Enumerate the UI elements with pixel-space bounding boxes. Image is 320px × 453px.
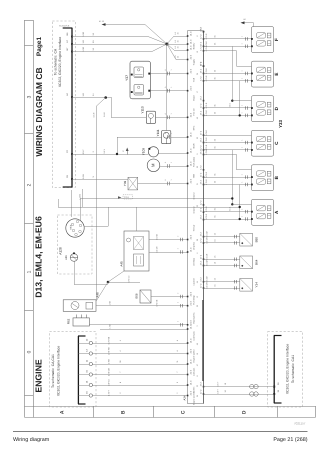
svg-text:1: 1	[240, 174, 243, 175]
wires to B50	[204, 231, 240, 245]
rail pin left	[187, 183, 189, 185]
svg-text:Boost: Boost	[193, 95, 196, 101]
wire Y37 upper coil to rail	[150, 73, 187, 75]
svg-text:8: 8	[176, 382, 179, 383]
injector link wire E-D	[239, 81, 241, 117]
svg-text:2: 2	[176, 393, 179, 394]
svg-text:C: C	[180, 410, 186, 414]
pump motor M (A128)	[147, 159, 160, 172]
svg-text:35: 35	[214, 43, 217, 45]
rail pin right	[203, 107, 205, 109]
svg-text:0.75-SB: 0.75-SB	[108, 336, 111, 344]
svg-text:16: 16	[214, 256, 217, 258]
svg-text:1-GN: 1-GN	[82, 174, 85, 179]
ground drop wire from interface	[82, 189, 84, 207]
svg-text:E: E	[274, 73, 279, 76]
pin 14 on lower connector	[86, 379, 122, 387]
svg-text:Ground: Ground	[193, 192, 196, 200]
svg-text:30: 30	[177, 32, 180, 34]
svg-text:ENGINE: ENGINE	[33, 359, 43, 393]
svg-text:Page 21 (268): Page 21 (268)	[273, 437, 307, 443]
svg-text:2: 2	[26, 183, 32, 186]
svg-text:0.75-R: 0.75-R	[205, 171, 208, 177]
svg-text:35: 35	[214, 216, 217, 218]
wire lower pin 15 to rail	[93, 395, 188, 397]
svg-text:Y37: Y37	[125, 75, 129, 81]
injector unit Y33-C	[251, 130, 274, 156]
wire to Y110	[111, 117, 146, 119]
svg-text:35: 35	[214, 77, 217, 79]
inline connector	[164, 132, 173, 139]
svg-text:Oil temp: Oil temp	[193, 257, 196, 266]
svg-text:7021157: 7021157	[294, 422, 306, 426]
svg-text:0.75-R: 0.75-R	[205, 137, 208, 143]
svg-text:1-SB: 1-SB	[82, 46, 85, 51]
rail pin left	[187, 353, 189, 355]
svg-text:B50: B50	[254, 237, 258, 243]
solenoid valve unit Y37	[125, 61, 151, 99]
twisted pair symbol	[250, 384, 259, 396]
svg-text:A48: A48	[96, 292, 100, 298]
sensor icon near Y109	[122, 148, 129, 155]
vertical wire from CB elbow down to A128	[71, 190, 73, 217]
wire Y37 lower coil to rail	[150, 90, 187, 92]
inline connector	[164, 69, 173, 76]
svg-text:1: 1	[240, 140, 243, 141]
rail pin right	[203, 265, 205, 267]
pin 34 bottom-right connector	[273, 389, 280, 395]
wire Y109 to rail	[159, 153, 188, 155]
wire MDA right to bus	[84, 226, 108, 228]
svg-text:0.75-R: 0.75-R	[205, 110, 208, 116]
supply arrow terminal for injectors	[241, 18, 254, 27]
svg-text:WIRING DIAGRAM CB: WIRING DIAGRAM CB	[34, 67, 44, 156]
svg-text:0.75-R: 0.75-R	[205, 102, 208, 108]
page titles (rotated)	[33, 37, 43, 393]
injector top feed wires	[204, 67, 252, 205]
svg-text:Y33: Y33	[278, 120, 283, 128]
svg-text:30: 30	[177, 40, 180, 42]
wires to injector B	[204, 171, 252, 186]
svg-text:A85: A85	[65, 255, 68, 260]
inline connector before rail	[176, 248, 182, 253]
svg-text:1: 1	[170, 179, 173, 180]
svg-text:Wiring diagram: Wiring diagram	[13, 437, 50, 443]
inline connector before rail	[176, 321, 182, 326]
rail pin right	[203, 65, 205, 67]
rail pin left	[187, 342, 189, 344]
svg-text:0.5-R: 0.5-R	[103, 112, 106, 117]
wire from CB pin B6 to node	[72, 36, 148, 38]
sensor B50	[240, 233, 258, 246]
engine ECU connector rail A34	[183, 31, 204, 404]
svg-text:Y109: Y109	[141, 148, 145, 156]
svg-text:Engine speed: Engine speed	[193, 349, 196, 363]
wires to injector D	[204, 102, 252, 117]
rail pin left	[187, 136, 189, 138]
svg-text:Page1: Page1	[36, 37, 43, 57]
rail pin left	[187, 251, 189, 253]
wire B58 to rail	[151, 296, 188, 298]
svg-text:Y34: Y34	[254, 282, 258, 288]
svg-text:0.75-R: 0.75-R	[205, 75, 208, 81]
pin A7 on connector CB	[66, 39, 95, 45]
svg-text:1: 1	[170, 113, 173, 114]
inline connector	[164, 112, 173, 119]
svg-text:16: 16	[214, 233, 217, 235]
svg-text:1: 1	[170, 87, 173, 88]
wire lower pin 14 to rail	[93, 385, 188, 387]
relay A48	[63, 292, 99, 311]
rail pin right	[203, 115, 205, 117]
rail pin left	[187, 73, 189, 75]
injector unit Y33-E	[251, 61, 274, 87]
svg-text:Fuel pump: Fuel pump	[193, 156, 196, 167]
svg-text:2: 2	[176, 248, 179, 249]
svg-text:Boost press: Boost press	[193, 313, 196, 324]
svg-text:1: 1	[240, 209, 243, 210]
rail pin right	[203, 219, 205, 221]
rail pin right	[203, 31, 205, 33]
svg-text:Sensor: Sensor	[193, 224, 196, 231]
svg-text:1: 1	[240, 182, 243, 183]
wire Y110 to rail	[156, 117, 188, 119]
wire lower pin 13 to rail	[93, 353, 188, 355]
control unit A128 (dashed)	[58, 215, 93, 274]
svg-text:Engine position: Engine position	[193, 391, 196, 405]
rail pin right	[203, 31, 205, 33]
svg-text:1-R: 1-R	[82, 40, 85, 44]
rail pin right	[203, 80, 205, 82]
rail pin left	[187, 152, 189, 154]
sensor B64	[240, 256, 258, 269]
svg-text:35: 35	[214, 70, 217, 72]
ground bus wire lower	[58, 207, 240, 209]
svg-text:Y110: Y110	[140, 106, 144, 113]
rail pin right	[203, 176, 205, 178]
wire A85 down to junction	[74, 261, 76, 284]
svg-text:A34: A34	[183, 395, 187, 400]
rail pin right	[203, 154, 205, 156]
svg-text:0.5-GR: 0.5-GR	[206, 253, 209, 260]
svg-text:1-SB: 1-SB	[109, 324, 112, 329]
solenoid valve Y111	[156, 129, 171, 143]
wires to injector C	[204, 137, 252, 152]
svg-text:B58: B58	[135, 293, 139, 298]
svg-text:35: 35	[214, 174, 217, 176]
svg-text:0.5-GR: 0.5-GR	[206, 276, 209, 283]
wire R62 to rail	[89, 324, 187, 326]
rail pin left	[187, 49, 189, 51]
svg-text:M: M	[151, 163, 156, 167]
svg-text:0.75-R: 0.75-R	[205, 33, 208, 39]
svg-text:0.75-R: 0.75-R	[205, 68, 208, 74]
wire lower pin 31 to rail	[93, 374, 188, 376]
sensor Y34	[240, 279, 258, 292]
svg-text:35: 35	[214, 208, 217, 210]
svg-text:A128: A128	[58, 247, 62, 255]
frame coordinate band (bottom)	[25, 406, 316, 418]
svg-text:1: 1	[240, 36, 243, 37]
wire branch to Y111	[117, 137, 119, 154]
rail pin left	[187, 43, 189, 45]
svg-text:0.75-R: 0.75-R	[205, 45, 208, 51]
pin 13 on lower connector	[86, 347, 122, 355]
svg-text:16: 16	[214, 262, 217, 264]
wire lower pin 11 to rail	[93, 364, 188, 366]
wire lower pin 12 to rail	[93, 343, 188, 345]
rail pin right	[203, 242, 205, 244]
svg-text:3: 3	[26, 95, 32, 98]
svg-text:1-SB: 1-SB	[82, 31, 85, 36]
rail pin right	[203, 50, 205, 52]
pin B6 on connector CB	[66, 31, 95, 37]
svg-text:0.75-R: 0.75-R	[205, 179, 208, 185]
wire from CB pin A2	[72, 96, 112, 300]
rail pin right	[203, 73, 205, 75]
svg-text:1-SB: 1-SB	[109, 300, 112, 305]
interface box XC302 lower (dashed)	[50, 332, 97, 408]
rail pin right	[203, 287, 205, 289]
svg-text:0.75-Y: 0.75-Y	[108, 389, 111, 396]
pin 12 on lower connector	[86, 336, 122, 344]
svg-text:16: 16	[214, 285, 217, 287]
wires to injector F	[204, 33, 252, 48]
svg-text:1: 1	[170, 133, 173, 134]
svg-text:Battery: Battery	[193, 42, 196, 50]
injector link wire C-A	[228, 150, 233, 211]
resistor R62	[66, 315, 89, 327]
svg-text:61 30: 61 30	[99, 20, 105, 23]
svg-text:Fuel temp: Fuel temp	[193, 295, 196, 305]
svg-text:1: 1	[240, 147, 243, 148]
rail pin right	[203, 184, 205, 186]
inline connector before rail	[176, 302, 182, 307]
rail pin left	[187, 324, 189, 326]
svg-text:XC302, GIC020, Engine Interfac: XC302, GIC020, Engine Interface	[285, 344, 289, 395]
wires to injector A	[204, 206, 252, 221]
svg-text:F: F	[274, 38, 279, 41]
control unit A45	[119, 231, 149, 271]
svg-text:0: 0	[26, 350, 32, 353]
svg-text:To schematic CA1: To schematic CA1	[291, 355, 295, 383]
svg-text:CA3: CA3	[124, 196, 129, 199]
wire from CB pin B7 to node	[72, 51, 152, 53]
frame coordinate band (left, rotated)	[25, 20, 34, 417]
rail pin right	[203, 134, 205, 136]
rail pin left	[187, 328, 189, 330]
link arrow marker	[118, 195, 133, 199]
solenoid valve Y110	[140, 106, 155, 123]
inline connector	[164, 179, 173, 186]
wire M to rail	[160, 166, 188, 168]
svg-text:XC302, GIC020, Engine Interfac: XC302, GIC020, Engine Interface	[58, 37, 62, 88]
injector unit Y33-B	[251, 165, 274, 191]
svg-text:35: 35	[214, 146, 217, 148]
rail pin left	[187, 165, 189, 167]
pin A2 on connector CB	[66, 92, 95, 98]
svg-text:VEB: VEB	[193, 173, 196, 178]
footer	[13, 422, 308, 444]
svg-text:16: 16	[214, 239, 217, 241]
svg-text:0.75-R: 0.75-R	[205, 206, 208, 212]
svg-text:EPG: EPG	[193, 125, 196, 130]
junction node supply	[145, 25, 188, 131]
svg-text:1: 1	[240, 78, 243, 79]
svg-text:4: 4	[176, 340, 179, 341]
svg-text:Crank pos: Crank pos	[193, 331, 196, 340]
rail pin left	[187, 374, 189, 376]
svg-text:1: 1	[240, 71, 243, 72]
svg-text:1: 1	[170, 69, 173, 70]
connector CB bar (upper)	[63, 28, 73, 187]
rail pin right	[203, 281, 205, 283]
wire from CB pin C2 to Y109	[72, 154, 148, 156]
ground bus wire upper	[80, 198, 232, 200]
lower ground wire	[100, 329, 188, 331]
rail pin left	[187, 305, 189, 307]
rail pin right	[203, 142, 205, 144]
svg-text:1: 1	[240, 43, 243, 44]
rail pin right	[203, 393, 205, 395]
injector supply wire E	[204, 45, 237, 66]
rail pin right	[203, 236, 205, 238]
wire Y111 to rail	[171, 137, 188, 139]
junction below A45	[97, 271, 141, 301]
pin 36 bottom-right connector	[273, 382, 280, 388]
svg-text:0.75-SB: 0.75-SB	[156, 299, 159, 307]
rail pin right	[203, 211, 205, 213]
svg-text:35: 35	[214, 139, 217, 141]
pin C2 on connector CB	[66, 149, 95, 155]
connector bracket lower	[78, 336, 86, 404]
svg-text:1-SB: 1-SB	[108, 359, 111, 364]
svg-text:1: 1	[240, 113, 243, 114]
sensor B58	[135, 290, 151, 303]
interface box XC302 bottom-right (dashed)	[268, 332, 303, 407]
rail pin right	[203, 38, 205, 40]
injector unit Y33-F	[251, 27, 274, 53]
wire A45 to rail upper	[149, 239, 188, 241]
svg-text:0.75-R: 0.75-R	[205, 129, 208, 135]
node output labels	[174, 31, 180, 58]
interface box XC302 upper (dashed)	[52, 21, 75, 188]
rail pin left	[187, 35, 189, 37]
svg-text:1-LGN: 1-LGN	[78, 194, 81, 200]
connector bracket bottom-right	[274, 336, 282, 404]
svg-text:0.75-R: 0.75-R	[205, 149, 208, 155]
svg-text:2: 2	[176, 236, 179, 237]
svg-text:Cam pos: Cam pos	[193, 368, 196, 376]
svg-text:D: D	[241, 410, 247, 414]
svg-text:1: 1	[170, 162, 173, 163]
svg-text:30: 30	[177, 56, 180, 58]
svg-text:2: 2	[176, 302, 179, 303]
inline connector before rail	[176, 293, 182, 298]
svg-text:0.5-GR: 0.5-GR	[206, 237, 209, 244]
svg-text:0.5-GR: 0.5-GR	[206, 231, 209, 238]
svg-text:To schematic CA,CA1: To schematic CA,CA1	[51, 354, 55, 388]
svg-text:2: 2	[176, 321, 179, 322]
svg-text:16: 16	[214, 278, 217, 280]
rail pin right	[203, 204, 205, 206]
svg-text:XC302, GIC020, Engine Interfac: XC302, GIC020, Engine Interface	[57, 346, 61, 397]
svg-text:0.5-Y: 0.5-Y	[217, 388, 220, 393]
injector link wire F-D	[228, 46, 233, 107]
pin 11 on lower connector	[86, 359, 122, 366]
svg-text:31: 31	[176, 361, 179, 363]
rail pin right	[203, 386, 205, 388]
svg-text:0.5-Y: 0.5-Y	[217, 381, 220, 386]
wire A45 top to bus	[136, 207, 138, 231]
svg-text:1-R: 1-R	[82, 93, 85, 97]
injector supply wire B	[204, 149, 237, 170]
wire from CB pin A7 to node	[72, 44, 167, 46]
wires to B64	[204, 253, 240, 267]
svg-text:0.5-GR: 0.5-GR	[206, 259, 209, 266]
svg-text:0.5-SB: 0.5-SB	[156, 233, 159, 240]
svg-text:35: 35	[214, 105, 217, 107]
pin B7 on connector CB	[66, 46, 95, 52]
svg-text:0.75-VO: 0.75-VO	[128, 275, 131, 283]
wire Y39 to rail	[138, 183, 188, 185]
svg-text:A: A	[59, 410, 65, 414]
inline connector	[164, 86, 173, 93]
svg-text:0.75-R: 0.75-R	[205, 213, 208, 219]
svg-text:35: 35	[214, 112, 217, 114]
svg-text:1: 1	[240, 105, 243, 106]
svg-text:0.75-GR: 0.75-GR	[108, 368, 111, 376]
svg-text:Ground: Ground	[193, 206, 196, 214]
pin C6 on connector CB	[66, 174, 95, 180]
wire to pin 34	[204, 394, 275, 396]
svg-text:B: B	[120, 410, 126, 414]
svg-text:0.5-R: 0.5-R	[92, 112, 95, 117]
multi-pin round connector MDA	[66, 219, 84, 237]
wires to injector E	[204, 68, 252, 83]
rail pin left	[187, 384, 189, 386]
svg-text:2: 2	[176, 293, 179, 294]
svg-text:A45: A45	[119, 261, 123, 267]
wire from CB pin C6 to Y39	[72, 179, 128, 181]
svg-text:0.5-VO: 0.5-VO	[108, 379, 111, 386]
rail pin right	[203, 149, 205, 151]
svg-text:XC302/CB: XC302/CB	[59, 24, 70, 27]
svg-text:7: 7	[176, 372, 179, 373]
svg-text:4: 4	[176, 351, 179, 352]
battery supply terminal (arrow) top-left	[99, 20, 145, 26]
svg-text:0.5-Y: 0.5-Y	[103, 148, 106, 153]
wires to Y34	[204, 276, 240, 290]
rail pin left	[187, 59, 189, 61]
rail pin right	[203, 65, 205, 67]
svg-text:R62: R62	[66, 318, 70, 324]
rail pin right	[203, 100, 205, 102]
svg-text:0.5-Y: 0.5-Y	[82, 149, 85, 155]
svg-text:Coolant: Coolant	[193, 278, 196, 286]
svg-text:B64: B64	[254, 259, 258, 265]
rail pin left	[187, 117, 189, 119]
wire A45 to rail lower	[149, 252, 188, 254]
svg-text:Fan ctrl: Fan ctrl	[193, 108, 196, 115]
svg-text:Y111: Y111	[156, 129, 160, 136]
svg-text:0.5-GR: 0.5-GR	[206, 282, 209, 289]
rail pin right	[203, 258, 205, 260]
pin 15 on lower connector	[86, 389, 122, 397]
svg-text:Y39: Y39	[123, 181, 127, 187]
svg-text:1: 1	[26, 270, 32, 273]
svg-text:30: 30	[177, 46, 180, 48]
